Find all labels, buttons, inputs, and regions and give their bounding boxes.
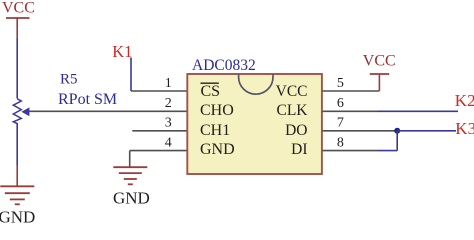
svg-text:7: 7	[337, 116, 344, 131]
pin name CS (with overline)	[201, 83, 221, 100]
wire R5 to ground	[16, 123, 18, 186]
wire CLK to K2	[378, 110, 458, 112]
svg-text:CS: CS	[201, 83, 221, 100]
svg-text:GND: GND	[0, 207, 35, 226]
wire K1 to pin 1	[130, 58, 132, 92]
svg-text:4: 4	[165, 136, 172, 151]
ground (left)	[0, 186, 34, 204]
pin 8 stub (DI)	[323, 150, 378, 152]
svg-text:R5: R5	[60, 72, 78, 88]
svg-text:K3: K3	[455, 119, 474, 138]
power VCC (top-left)	[2, 0, 35, 39]
svg-text:5: 5	[337, 76, 344, 91]
svg-text:1: 1	[165, 76, 172, 91]
svg-text:CH1: CH1	[200, 122, 230, 139]
wire VCC to R5	[16, 39, 18, 99]
svg-text:CLK: CLK	[277, 102, 309, 119]
svg-text:CHO: CHO	[200, 102, 234, 119]
svg-text:K1: K1	[112, 42, 132, 61]
IC notch	[239, 74, 273, 94]
svg-text:2: 2	[165, 96, 172, 111]
svg-text:K2: K2	[455, 91, 474, 110]
ground (middle)	[113, 167, 147, 184]
svg-text:GND: GND	[200, 141, 235, 158]
pin 4 stub (GND) to ground	[130, 151, 188, 167]
svg-text:VCC: VCC	[276, 83, 308, 100]
svg-text:GND: GND	[113, 189, 150, 208]
svg-text:8: 8	[337, 136, 344, 151]
pin 5 stub (VCC)	[323, 90, 380, 92]
svg-text:VCC: VCC	[2, 0, 35, 17]
pin 6 stub (CLK)	[323, 110, 379, 112]
wire DO to K3	[397, 130, 456, 132]
svg-text:VCC: VCC	[363, 53, 396, 70]
svg-text:RPot SM: RPot SM	[58, 91, 117, 108]
pin 3 stub (CH1)	[132, 130, 187, 132]
IC U1 ADC0832 body	[187, 74, 322, 174]
wire DI to junction	[378, 131, 398, 151]
svg-text:6: 6	[337, 96, 344, 111]
resistor R5 wiper arrow	[21, 107, 29, 116]
svg-text:DI: DI	[291, 141, 307, 158]
pin 7 stub (DO)	[323, 130, 396, 132]
resistor R5 zigzag	[13, 99, 21, 124]
svg-text:ADC0832: ADC0832	[192, 57, 256, 74]
junction dot	[394, 128, 400, 134]
pin 2 stub / wire wiper to CHO	[29, 110, 188, 112]
svg-text:DO: DO	[285, 122, 307, 139]
pin 1 stub (CS)	[131, 90, 188, 92]
svg-text:3: 3	[165, 116, 172, 131]
power VCC (right)	[363, 53, 396, 91]
